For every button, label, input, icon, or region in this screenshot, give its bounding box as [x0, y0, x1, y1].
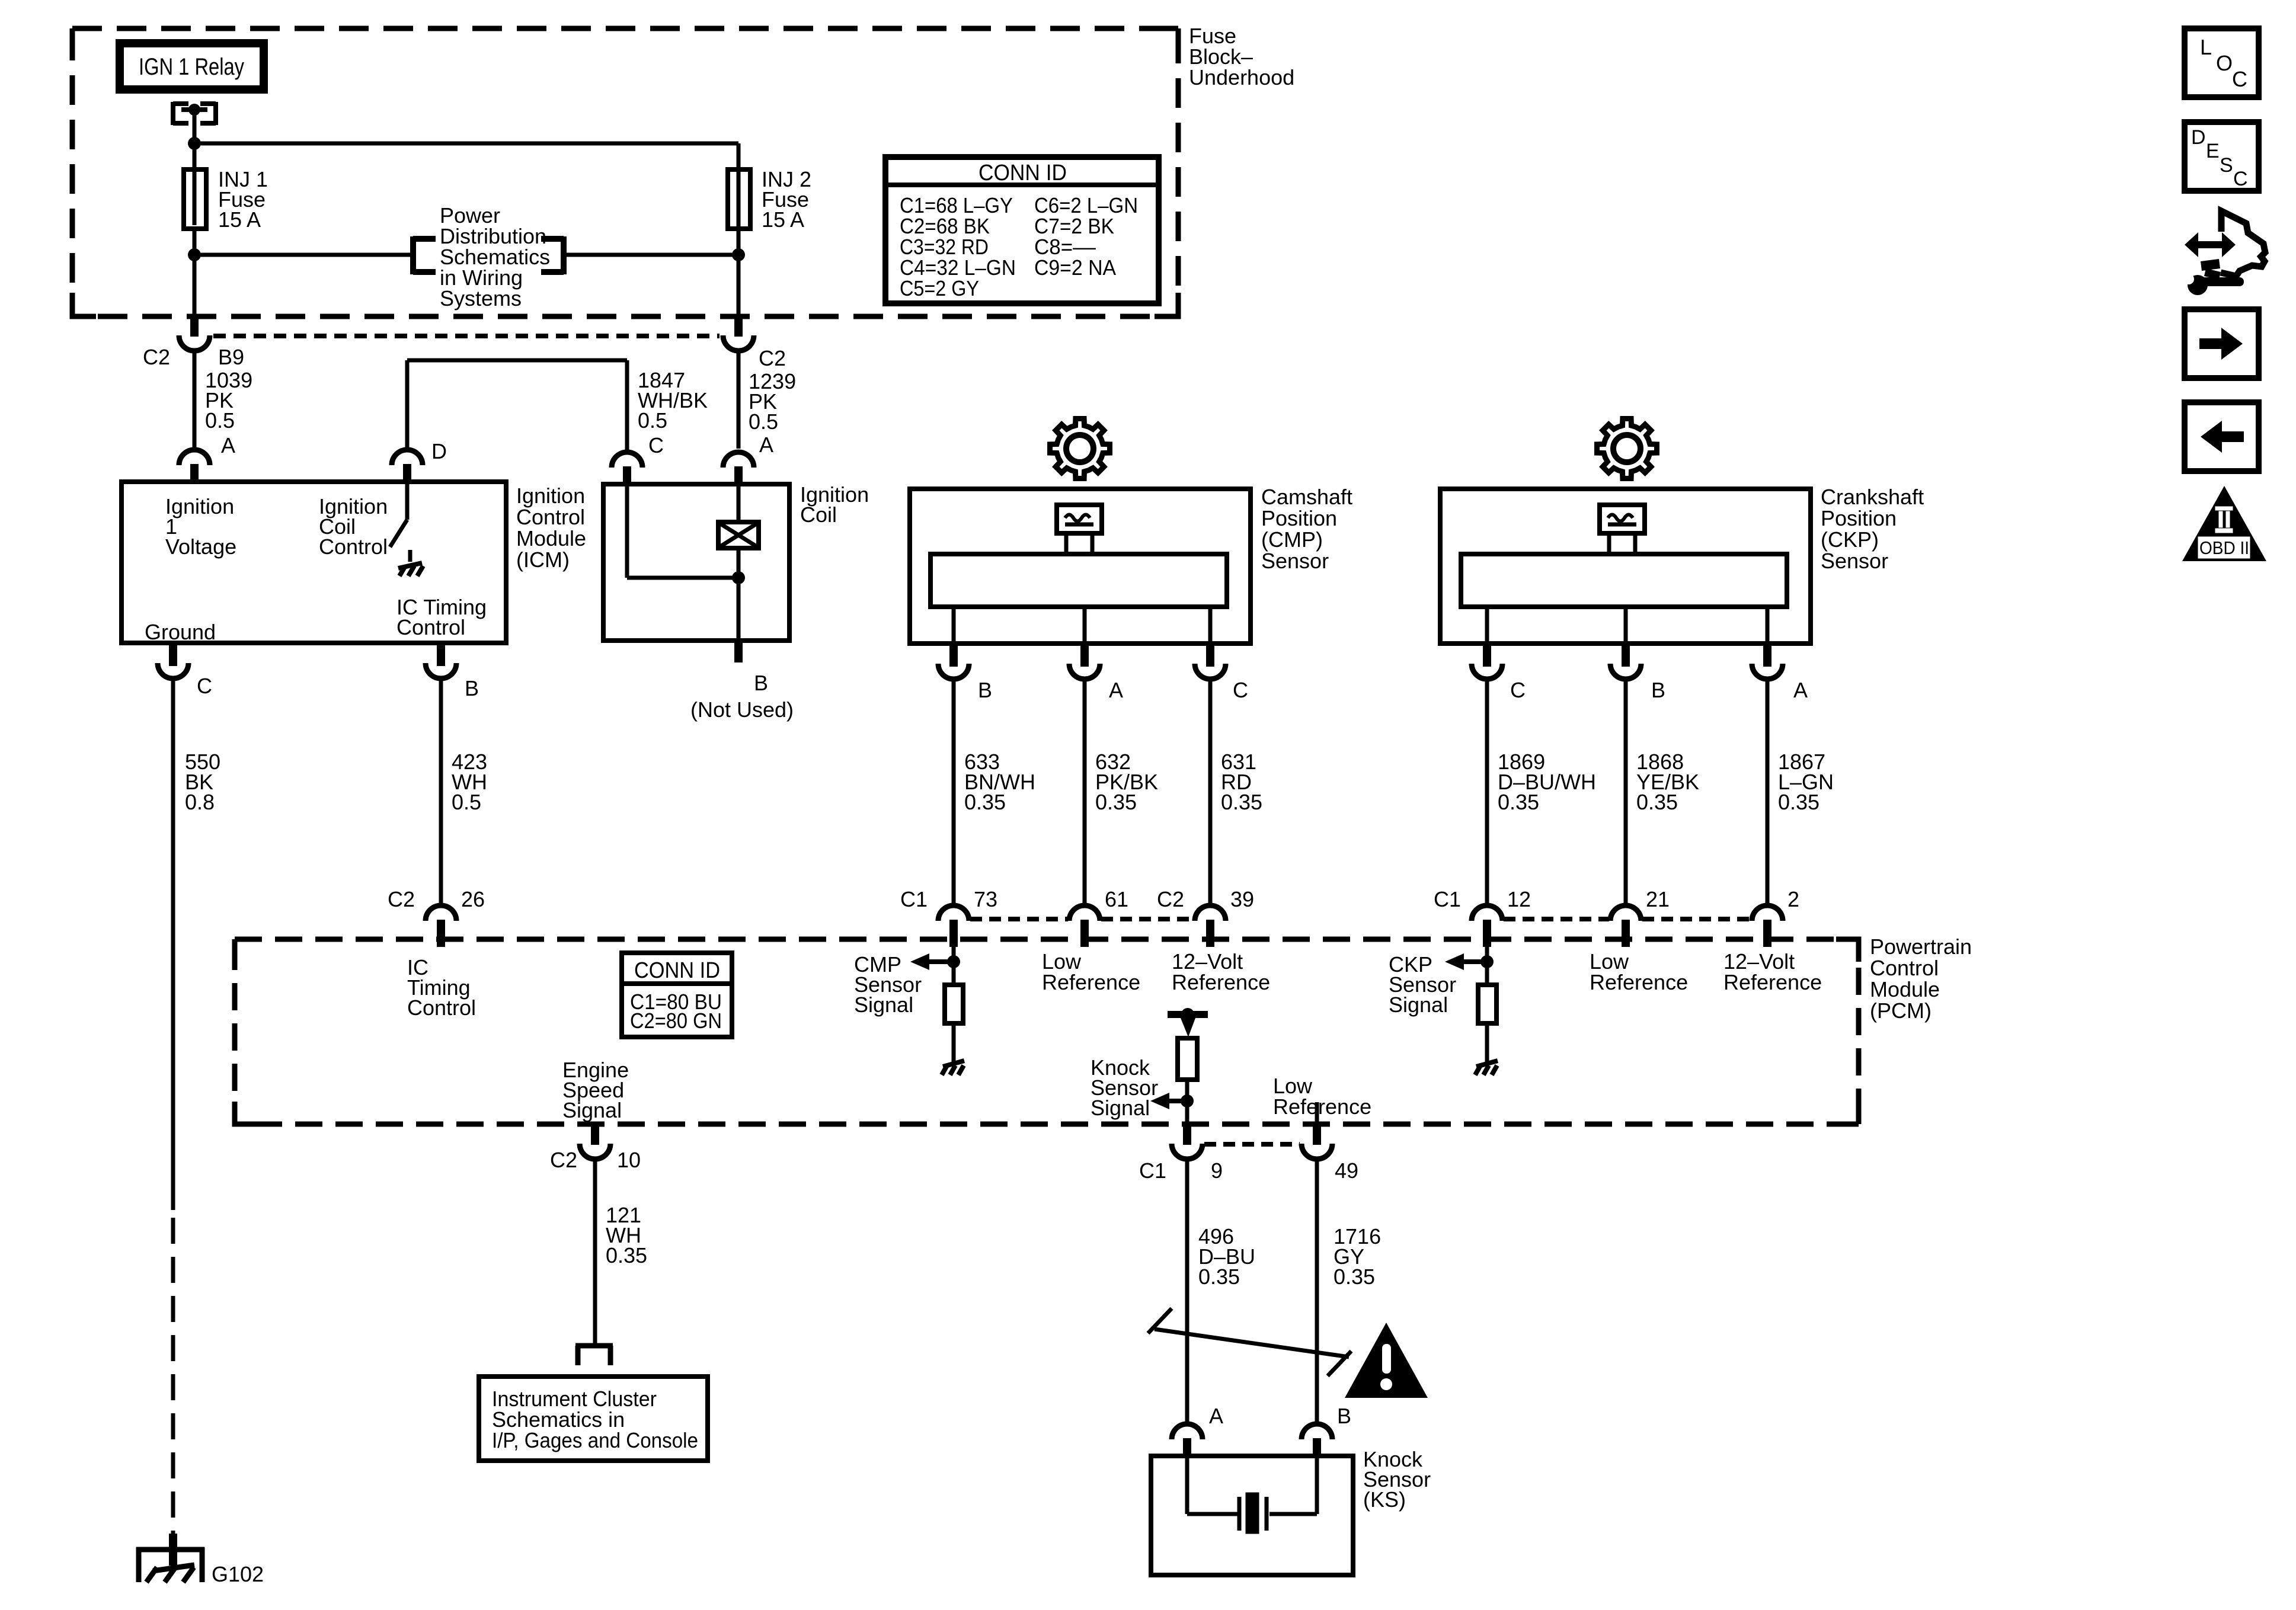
connector C into ignition coil [612, 452, 642, 468]
svg-text:Control: Control [1870, 956, 1939, 980]
svg-text:Reference: Reference [1273, 1094, 1371, 1119]
connector C2 39 on PCM [1195, 905, 1226, 921]
svg-text:C1: C1 [900, 887, 928, 911]
dotted harness line C1 (12-21-2) [1504, 917, 1609, 921]
svg-text:Coil: Coil [800, 502, 837, 527]
connector 2 on PCM [1752, 905, 1783, 921]
svg-text:0.35: 0.35 [964, 790, 1006, 814]
svg-text:C5=2 GY: C5=2 GY [900, 276, 979, 300]
svg-text:Reference: Reference [1723, 970, 1822, 994]
relay IGN 1 Relay box [120, 43, 264, 89]
svg-text:E: E [2206, 140, 2220, 162]
dotted harness line C2 [213, 334, 720, 338]
svg-text:C2: C2 [759, 346, 786, 370]
svg-text:C: C [197, 674, 212, 698]
wire 1847 WH/BK 0.5 [405, 360, 410, 450]
svg-text:C2: C2 [1157, 887, 1184, 911]
svg-text:C: C [2233, 168, 2248, 190]
wire 423 WH 0.5 [439, 678, 443, 906]
fuse INJ 1 15A [184, 169, 206, 229]
svg-text:OBD II: OBD II [2199, 537, 2249, 558]
connector A into ignition coil [723, 452, 754, 468]
svg-text:0.5: 0.5 [638, 408, 667, 433]
connector D on ICM [392, 450, 423, 465]
svg-text:39: 39 [1230, 887, 1254, 911]
connector A into ICM [179, 450, 210, 465]
svg-text:C: C [1233, 678, 1248, 702]
svg-text:0.35: 0.35 [606, 1243, 647, 1267]
icon LOC box [2185, 28, 2259, 97]
svg-text:(PCM): (PCM) [1870, 998, 1932, 1023]
node coil internal junction [732, 571, 745, 584]
instrument cluster box [479, 1377, 708, 1461]
svg-text:O: O [2216, 51, 2233, 75]
svg-text:Reference: Reference [1590, 970, 1688, 994]
svg-text:Module: Module [1870, 977, 1940, 1001]
connector pin 49 [1313, 1123, 1321, 1145]
wire to resistor [952, 947, 956, 985]
svg-text:0.35: 0.35 [1334, 1265, 1375, 1289]
off-page bracket left [410, 236, 416, 274]
svg-text:Control: Control [319, 534, 388, 559]
connector C (ICM ground) [169, 642, 177, 666]
wire 632 PK/BK 0.35 [1083, 679, 1087, 906]
relay contact symbol [171, 102, 175, 125]
svg-text:B: B [1337, 1404, 1351, 1428]
svg-text:C: C [648, 433, 664, 457]
svg-text:Signal: Signal [854, 993, 913, 1017]
fuse INJ 2 15A [728, 169, 750, 229]
ICM box [121, 482, 506, 643]
connector B knock sensor [1302, 1424, 1332, 1439]
svg-text:2: 2 [1787, 887, 1799, 911]
arrow knock sensor signal [1150, 1093, 1169, 1109]
svg-text:C2: C2 [550, 1148, 577, 1172]
arrow CKP sensor signal [1445, 953, 1464, 970]
svg-text:A: A [759, 433, 773, 457]
svg-text:(KS): (KS) [1363, 1487, 1406, 1512]
svg-text:Camshaft: Camshaft [1261, 485, 1352, 509]
wire 1868 YE/BK 0.35 [1624, 679, 1628, 906]
svg-text:A: A [1109, 678, 1123, 702]
connector C1 pin 9 [1183, 1123, 1191, 1145]
twisted cable crossing mark [1155, 1329, 1349, 1357]
connector 21 on PCM [1610, 905, 1641, 921]
svg-text:G102: G102 [212, 1562, 264, 1586]
CMP sensor inner box [930, 554, 1227, 607]
icon back arrow box [2185, 402, 2259, 471]
svg-text:IGN 1 Relay: IGN 1 Relay [139, 54, 244, 80]
svg-text:Position: Position [1261, 506, 1337, 530]
svg-text:Ground: Ground [145, 620, 216, 644]
svg-text:Systems: Systems [440, 286, 522, 311]
svg-text:Underhood: Underhood [1189, 65, 1294, 89]
svg-text:A: A [221, 433, 235, 457]
connector 61 on PCM [1069, 905, 1100, 921]
svg-text:0.35: 0.35 [1198, 1265, 1240, 1289]
ground (ICM internal) [408, 550, 412, 562]
svg-text:15 A: 15 A [762, 207, 804, 232]
connector B of CKP [1622, 642, 1630, 667]
wire 496 D-BU 0.35 [1185, 1159, 1189, 1426]
wire to INJ1 fuse [193, 143, 197, 255]
connector C2 (INJ2 feed) [734, 315, 743, 337]
gear icon CMP [1050, 419, 1110, 479]
connector C of CKP [1483, 642, 1491, 667]
svg-text:Crankshaft: Crankshaft [1821, 485, 1924, 509]
svg-text:B9: B9 [218, 345, 244, 369]
wire 1869 D-BU/WH 0.35 [1485, 679, 1489, 906]
arrow CMP sensor signal [910, 953, 929, 970]
svg-text:15 A: 15 A [218, 207, 261, 232]
svg-text:C: C [1510, 678, 1526, 702]
resistor (CKP pull-up) [1478, 985, 1496, 1023]
svg-text:CONN ID: CONN ID [634, 958, 720, 983]
node knock signal junction [1181, 1094, 1194, 1108]
svg-text:A: A [1793, 678, 1808, 702]
connector C2 26 on PCM [426, 905, 456, 921]
svg-text:Sensor: Sensor [1261, 549, 1329, 573]
svg-text:Control: Control [516, 505, 585, 529]
knock signal termination bar [1168, 1011, 1208, 1018]
CMP sensor element [1057, 505, 1102, 533]
connector A knock sensor [1172, 1424, 1203, 1439]
CMP sensor pin wires [952, 607, 956, 644]
switch ignition coil control [405, 482, 410, 520]
connector B of CMP [949, 642, 958, 667]
wire INJ1 fuse down to fuse block edge [193, 255, 197, 316]
connector C1 12 on PCM [1472, 905, 1502, 921]
wire relay output to INJ2 branch [194, 142, 738, 146]
svg-text:0.35: 0.35 [1636, 790, 1678, 814]
fuse block underhood dashed box [72, 28, 1178, 316]
svg-text:(CKP): (CKP) [1821, 527, 1879, 552]
node relay/INJ1 junction [188, 137, 201, 150]
CONN ID table PCM [622, 953, 732, 1037]
wire low reference (knock) [1315, 1102, 1319, 1124]
svg-text:D: D [431, 439, 447, 463]
svg-text:0.35: 0.35 [1498, 790, 1539, 814]
icon DESC box [2185, 122, 2259, 191]
wire 550 BK 0.8 [171, 678, 175, 1210]
svg-text:73: 73 [974, 887, 997, 911]
resistor (knock) [1178, 1038, 1197, 1080]
ignition coil box [603, 484, 789, 641]
wire 1039 PK 0.5 [193, 351, 197, 449]
svg-text:B: B [754, 671, 768, 695]
svg-text:C2: C2 [388, 887, 415, 911]
svg-text:12: 12 [1507, 887, 1531, 911]
wire 631 RD 0.35 [1208, 679, 1213, 906]
svg-text:B: B [1651, 678, 1665, 702]
svg-text:26: 26 [461, 887, 485, 911]
node INJ2/power-dist junction [732, 248, 745, 261]
connector C of CMP [1206, 642, 1214, 667]
connector C2 pin B9 [190, 315, 199, 337]
pin B not used [734, 639, 743, 662]
svg-text:21: 21 [1646, 887, 1670, 911]
svg-text:I/P, Gages and Console: I/P, Gages and Console [492, 1428, 698, 1452]
svg-text:0.5: 0.5 [749, 409, 778, 434]
svg-text:0.35: 0.35 [1221, 790, 1262, 814]
resistor (CMP pull-up) [945, 985, 963, 1023]
connector C1 73 on PCM [938, 905, 969, 921]
coil primary winding symbol [718, 522, 759, 548]
svg-text:Reference: Reference [1042, 970, 1140, 994]
svg-text:(Not Used): (Not Used) [690, 697, 794, 722]
svg-text:D: D [2191, 126, 2206, 149]
svg-text:49: 49 [1335, 1158, 1358, 1183]
CKP sensor pin wires [1485, 607, 1489, 644]
svg-text:0.8: 0.8 [185, 790, 215, 814]
wire INJ1 fuse to power distribution bracket [194, 253, 410, 257]
node INJ1/power-dist junction [188, 248, 201, 261]
icon forward arrow box [2185, 309, 2259, 378]
icon connector-view (arrow, plug, wrench) [2198, 241, 2223, 248]
ground (CMP internal) [952, 1056, 956, 1064]
svg-text:Signal: Signal [1389, 993, 1448, 1017]
svg-text:10: 10 [617, 1148, 641, 1172]
wire INJ2 fuse to C2 connector [737, 224, 741, 316]
svg-text:Voltage: Voltage [165, 534, 236, 559]
svg-text:Signal: Signal [562, 1098, 622, 1122]
knock sensor box [1151, 1456, 1353, 1575]
warning triangle [1345, 1323, 1428, 1398]
svg-text:B: B [465, 676, 479, 700]
svg-text:A: A [1209, 1404, 1223, 1428]
wire 121 WH 0.35 [593, 1159, 597, 1346]
wire power-dist bracket to INJ2 [567, 253, 738, 257]
svg-text:9: 9 [1211, 1158, 1223, 1183]
svg-text:Control: Control [396, 615, 465, 639]
icon OBD II triangle [2182, 486, 2266, 561]
ground G102 [169, 1534, 177, 1566]
CMP sensor outer box [910, 489, 1251, 644]
svg-text:Position: Position [1821, 506, 1897, 530]
svg-text:Ignition: Ignition [516, 484, 585, 508]
svg-text:Control: Control [407, 996, 476, 1020]
svg-text:0.35: 0.35 [1778, 790, 1819, 814]
CKP sensor outer box [1440, 489, 1811, 644]
knock sensor piezo element [1185, 1456, 1189, 1514]
svg-text:0.35: 0.35 [1095, 790, 1137, 814]
CKP sensor inner box [1461, 554, 1787, 607]
coil internal wiring [625, 484, 629, 578]
dotted harness line C1 (9-49) [1204, 1142, 1300, 1147]
node CMP signal junction [947, 955, 960, 968]
wire 633 BN/WH 0.35 [952, 679, 956, 906]
svg-text:C2=80 GN: C2=80 GN [630, 1009, 722, 1033]
svg-text:Powertrain: Powertrain [1870, 934, 1972, 959]
svg-text:Reference: Reference [1172, 970, 1270, 994]
CKP sensor element [1600, 505, 1645, 533]
wire 1239 PK 0.5 [737, 351, 741, 449]
connector A of CMP [1080, 642, 1089, 667]
svg-text:C: C [2232, 67, 2247, 91]
svg-text:Sensor: Sensor [1821, 549, 1888, 573]
svg-text:0.5: 0.5 [452, 790, 481, 814]
svg-text:L: L [2200, 35, 2212, 59]
CONN ID table (fuse block) [885, 157, 1159, 303]
ground (CKP internal) [1485, 1056, 1489, 1064]
off-page bracket right [561, 236, 567, 274]
off-page bracket to instrument cluster [575, 1343, 613, 1349]
connector A of CKP [1763, 642, 1771, 667]
svg-text:Module: Module [516, 526, 586, 550]
connector B (IC timing control) [437, 642, 445, 666]
svg-text:B: B [978, 678, 992, 702]
wire 1716 GY 0.35 [1315, 1159, 1319, 1426]
dotted harness line C1 (73-61-39) [970, 917, 1068, 921]
PCM dashed box [235, 939, 1859, 1124]
connector C2 pin 10 [591, 1123, 599, 1145]
svg-text:(ICM): (ICM) [516, 548, 570, 572]
svg-text:C1: C1 [1434, 887, 1461, 911]
wire 1867 L-GN 0.35 [1766, 679, 1770, 906]
svg-text:Signal: Signal [1091, 1096, 1150, 1120]
svg-text:61: 61 [1105, 887, 1128, 911]
svg-text:C1: C1 [1139, 1158, 1166, 1183]
gear icon CKP [1597, 419, 1657, 479]
wire dashed to G102 [171, 1218, 175, 1536]
svg-text:C9=2 NA: C9=2 NA [1034, 255, 1116, 280]
svg-text:0.5: 0.5 [205, 408, 235, 433]
node CKP signal junction [1480, 955, 1494, 968]
svg-text:S: S [2220, 154, 2233, 177]
svg-text:CONN ID: CONN ID [978, 161, 1067, 185]
svg-text:(CMP): (CMP) [1261, 527, 1323, 552]
svg-text:C2: C2 [143, 345, 170, 369]
